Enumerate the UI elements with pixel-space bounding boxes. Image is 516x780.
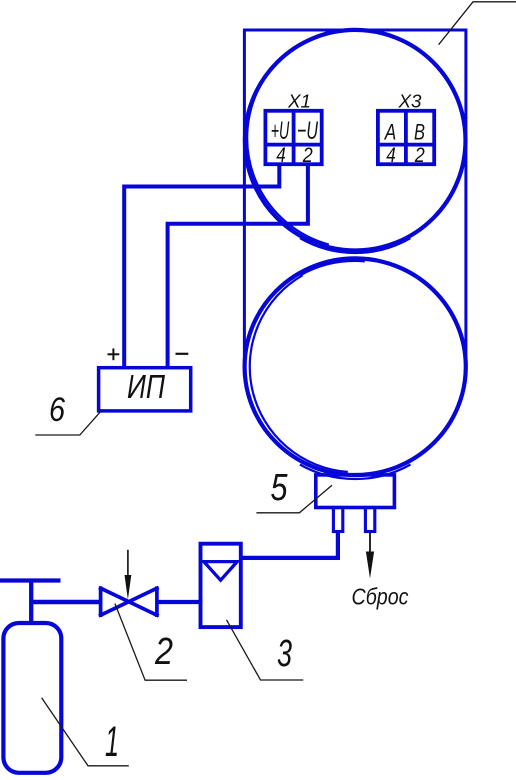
leader line 3	[227, 620, 304, 680]
gas cylinder body	[3, 623, 61, 773]
label X3	[397, 92, 421, 112]
pipe rotameter to valve	[157, 600, 202, 604]
X3 pin 4	[386, 144, 396, 167]
lower chamber inner arc	[250, 261, 411, 479]
svg-text:Сброс: Сброс	[352, 584, 409, 610]
wire +U from X1 pin 4 to power supply	[124, 164, 279, 368]
label 2	[154, 631, 173, 673]
X3 cell B	[414, 120, 425, 145]
rotameter body	[201, 544, 241, 627]
label 6	[49, 391, 65, 429]
svg-text:2: 2	[302, 144, 313, 167]
right nozzle pin	[365, 508, 374, 532]
leader line 1	[42, 698, 129, 766]
svg-text:B: B	[414, 120, 425, 145]
leader line 5	[256, 485, 332, 513]
X1 cell +U	[271, 117, 290, 145]
leader line 6	[35, 410, 101, 435]
upper chamber circle	[245, 30, 466, 251]
power supply box	[99, 368, 191, 411]
plus terminal mark	[108, 348, 120, 360]
X1 cell -U	[297, 117, 319, 145]
cylinder neck	[29, 581, 33, 623]
rotameter float triangle	[204, 562, 237, 581]
svg-text:5: 5	[271, 467, 289, 509]
enclosure rectangle (sensor body)	[244, 30, 466, 374]
label X1	[287, 92, 311, 112]
terminal block X3	[378, 111, 434, 164]
X3 pin 2	[414, 144, 425, 167]
label 3	[277, 633, 292, 675]
svg-text:1: 1	[105, 718, 119, 766]
cylinder top bar	[0, 578, 61, 582]
left nozzle pin	[333, 508, 342, 532]
pipe from left nozzle to rotameter	[241, 532, 338, 558]
svg-text:+U: +U	[271, 117, 290, 145]
wire -U from X1 pin 2 to power supply	[168, 164, 308, 368]
svg-text:4: 4	[276, 144, 286, 167]
svg-text:X1: X1	[287, 92, 311, 112]
fitting block 5	[316, 475, 395, 508]
X1 pin 2	[302, 144, 313, 167]
upper chamber inner arc	[247, 83, 410, 253]
valve body	[101, 588, 157, 615]
discharge arrow	[366, 532, 374, 579]
valve stem arrow	[125, 550, 132, 600]
svg-text:4: 4	[386, 144, 396, 167]
pipe cylinder to valve	[31, 600, 100, 604]
svg-text:−U: −U	[297, 117, 319, 145]
leader line 2	[115, 604, 187, 681]
label ИП	[127, 368, 165, 405]
label 1	[105, 718, 119, 766]
svg-text:A: A	[383, 120, 396, 145]
label Сброс	[352, 584, 409, 610]
svg-text:2: 2	[414, 144, 425, 167]
svg-text:X3: X3	[397, 92, 421, 112]
svg-text:3: 3	[277, 633, 292, 675]
svg-text:ИП: ИП	[127, 368, 165, 405]
minus terminal mark	[176, 353, 189, 355]
svg-text:6: 6	[49, 391, 65, 429]
X1 pin 4	[276, 144, 286, 167]
leader line to enclosure (top right)	[439, 2, 516, 45]
lower chamber circle	[245, 258, 466, 475]
svg-text:2: 2	[154, 631, 173, 673]
X3 cell A	[383, 120, 396, 145]
label 5	[271, 467, 289, 509]
terminal block X1	[265, 111, 321, 164]
